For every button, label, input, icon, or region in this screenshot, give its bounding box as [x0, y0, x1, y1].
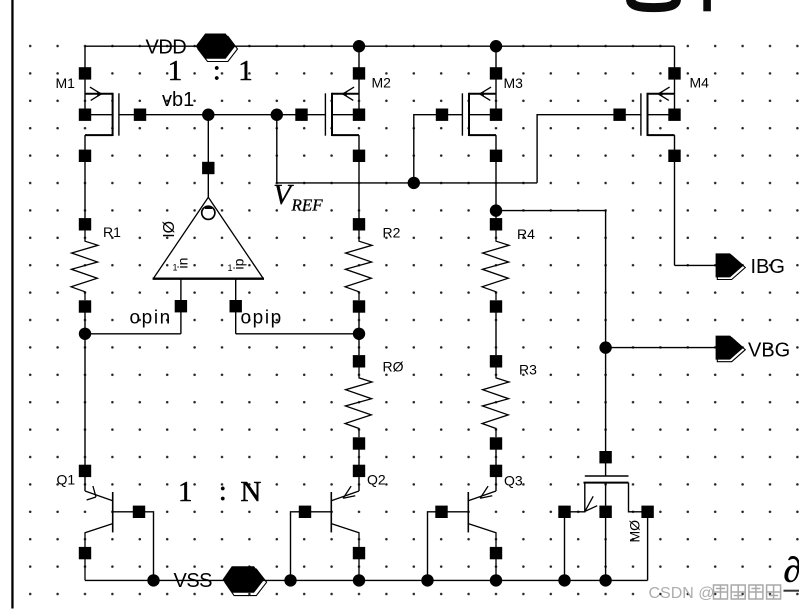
svg-text:1: 1 [168, 55, 183, 87]
svg-text:1: 1 [178, 476, 193, 508]
wire R3 bottom to Q3 [495, 444, 497, 492]
resistor R4 [482, 218, 509, 313]
wire opin [85, 333, 181, 335]
svg-text:R1: R1 [103, 224, 121, 240]
node VBG junction dot [599, 341, 611, 353]
transistor M0 (NMOS, gate up) [558, 451, 654, 580]
node junction dot Q3 collector / VSS [490, 574, 502, 586]
transistor Q3 (PNP BJT, mirrored) [428, 465, 503, 581]
watermark CSDN [649, 585, 799, 602]
svg-text:M1: M1 [56, 75, 76, 91]
svg-text:Q1: Q1 [57, 472, 76, 488]
ground VSS hexagon symbol [223, 566, 267, 595]
svg-text:VBG: VBG [748, 340, 790, 362]
decorative cropped heading glyph g (top right) [631, 0, 677, 8]
node junction dot Q1 base / VSS [147, 574, 159, 586]
svg-text:1: 1 [173, 263, 178, 273]
wire VSS rail [85, 579, 648, 581]
op-amp U1 (I0) [153, 115, 264, 334]
wire R0 bottom to Q2 [358, 444, 360, 492]
pin VBG (output pin symbol) [716, 336, 746, 362]
wire R4 bottom to R3 top [495, 307, 497, 356]
label 1 : N (emitter ratio) [178, 475, 261, 508]
decorative cropped heading glyph bar (top right) [703, 0, 711, 11]
transistor Q1 (PNP BJT) [79, 465, 154, 581]
wire VDD rail [85, 45, 675, 47]
svg-text:RØ: RØ [383, 359, 404, 375]
svg-text:Q3: Q3 [504, 473, 523, 489]
wire VREF net: vb1 branch down and across to M3/M4 gates [277, 115, 641, 183]
transistor Q2 (PNP BJT, mirrored) [291, 465, 366, 581]
label VREF [273, 179, 323, 215]
node junction dot VDD rail / M2 [353, 40, 365, 52]
svg-text:N: N [240, 476, 261, 508]
node junction dot Q2 collector / VSS [353, 574, 365, 586]
node opin junction dot [79, 328, 91, 340]
svg-text:VSS: VSS [174, 570, 213, 592]
node junction dot M0 bulk / VSS [599, 574, 611, 586]
svg-text:R2: R2 [383, 225, 401, 241]
node VREF junction dot [408, 177, 420, 189]
wire M4 drain to IBG pin [675, 264, 716, 266]
svg-text:IØ: IØ [161, 221, 178, 238]
label 1 : 1 (mirror ratio) [168, 55, 253, 88]
svg-text:M3: M3 [504, 75, 524, 91]
wire R2 bottom through opip node to R0 [358, 307, 360, 356]
node junction dot VDD rail / M3 [490, 40, 502, 52]
wire VBG to output pin [606, 347, 716, 349]
node M3 drain junction dot [490, 204, 502, 216]
wire VBG net: M3 drain across and down to M0 gate [496, 211, 606, 476]
node junction dot M0 source / VSS [558, 574, 570, 586]
svg-text:∂: ∂ [784, 551, 799, 590]
svg-text::: : [219, 475, 227, 507]
node junction dot Q3 base / VSS [421, 574, 433, 586]
svg-text:CSDN @: CSDN @ [649, 585, 715, 602]
svg-text:vb1: vb1 [162, 89, 194, 111]
wire R1 bottom to Q1 [84, 307, 86, 492]
node junction dot vb1/VREF branch [271, 109, 283, 121]
resistor R2 [345, 218, 372, 313]
svg-text:M4: M4 [690, 74, 710, 90]
svg-text:M2: M2 [372, 75, 392, 91]
wire vb1 gate bus [119, 114, 326, 116]
transistor M2 (PMOS, mirrored) [295, 46, 365, 224]
svg-text:IBG: IBG [751, 256, 785, 278]
svg-text:1: 1 [228, 263, 233, 273]
svg-text:1: 1 [238, 55, 253, 87]
node opip junction dot [353, 328, 365, 340]
svg-text:opip: opip [241, 307, 283, 328]
transistor M1 (PMOS) [79, 46, 146, 224]
pin IBG (output pin symbol) [716, 253, 746, 279]
resistor R0 [345, 355, 372, 450]
resistor R1 [71, 218, 98, 313]
wire opip [236, 333, 359, 335]
svg-text:opin: opin [130, 307, 172, 328]
node vb1 junction dot [202, 109, 214, 121]
svg-text:R3: R3 [519, 362, 537, 378]
power VDD hexagon symbol [196, 34, 238, 62]
svg-text:REF: REF [291, 196, 324, 215]
node junction dot Q2 base / VSS [284, 574, 296, 586]
transistor M4 (PMOS, mirrored) [613, 46, 680, 265]
svg-text:Q2: Q2 [367, 472, 386, 488]
svg-text:R4: R4 [517, 226, 535, 242]
resistor R3 [482, 355, 509, 450]
svg-text:MØ: MØ [627, 520, 643, 543]
transistor M3 (PMOS, mirrored) [436, 46, 502, 224]
svg-text:ip: ip [231, 258, 247, 269]
svg-text::: : [213, 55, 221, 87]
